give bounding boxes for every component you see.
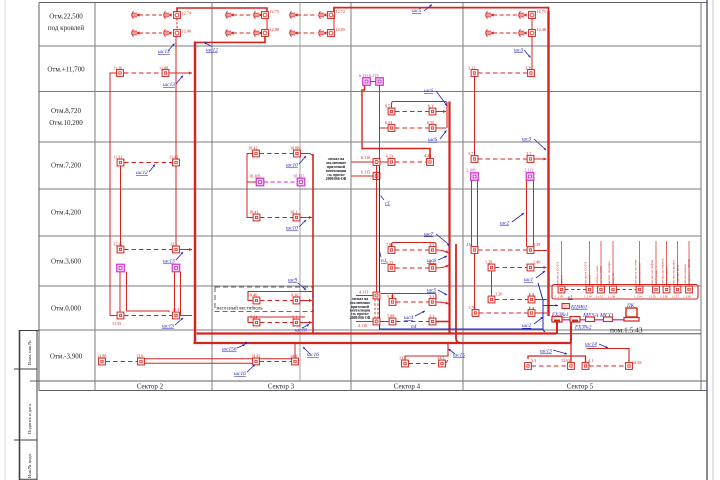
leader shs16 b [303, 347, 310, 354]
sounder D1a [486, 11, 494, 18]
module 4.115 [373, 292, 380, 299]
scan edge right [712, 0, 714, 480]
svg-text:шс6: шс6 [427, 258, 436, 264]
wire stub 5.88 left [380, 321, 389, 323]
svg-text:FX3№2: FX3№2 [574, 325, 592, 331]
detector 11.1 [173, 312, 180, 319]
leader shs12 mid [149, 165, 155, 173]
svg-text:3.1: 3.1 [429, 294, 434, 299]
detector 12.1 [173, 246, 180, 253]
svg-text:6.23: 6.23 [386, 154, 393, 159]
svg-text:шс7: шс7 [424, 232, 433, 238]
level line 11700 bottom [39, 91, 701, 93]
bracket sector4 basement [405, 343, 448, 360]
svg-text:6.1: 6.1 [428, 104, 433, 109]
bus node FX3-1 fill [554, 320, 560, 323]
svg-text:5.36: 5.36 [387, 294, 394, 299]
detector 3.71 [471, 156, 478, 163]
sector captions [137, 383, 594, 391]
magenta module 10.117 [297, 178, 305, 186]
leader shs13 [176, 76, 183, 85]
node 6.116 [373, 159, 380, 166]
detector 2.6 [471, 247, 478, 254]
black note block sector4 [350, 297, 371, 320]
wire dashed 1.70-1.1b [479, 312, 528, 314]
leader shs16 a [247, 365, 255, 373]
detector 6.51 [388, 108, 395, 115]
svg-text:Отм.10,200: Отм.10,200 [49, 119, 83, 127]
drop FX3 to bus lower [570, 323, 572, 344]
detector 2.39 [527, 247, 534, 254]
svg-text:10.1: 10.1 [290, 210, 297, 215]
wire dashed 13.1-14.1 [409, 363, 439, 365]
PC monitor icon [626, 308, 637, 317]
leader shs14 [599, 344, 608, 348]
output module 1.136b [663, 286, 670, 293]
thick bus upper [197, 332, 557, 334]
module 12.72 [328, 12, 335, 19]
magenta module 2.108 [471, 173, 479, 181]
svg-text:п1: п1 [568, 295, 573, 300]
wire pair 13.9-14.9 top [145, 358, 292, 360]
svg-text:шс15б: шс15б [222, 346, 237, 353]
svg-text:2.39: 2.39 [533, 242, 540, 247]
wire 6.34 left to riser [380, 127, 389, 129]
wire pair 13.9-14.9 bottom [145, 362, 253, 364]
svg-text:под кровлей: под кровлей [48, 24, 85, 32]
svg-text:11.1: 11.1 [172, 307, 179, 312]
svg-text:12.32: 12.32 [113, 242, 122, 247]
magenta module 6.111 [363, 78, 371, 86]
axis line mid sector 3 [299, 3, 301, 382]
svg-text:4.116: 4.116 [358, 323, 367, 328]
svg-text:1.134: 1.134 [634, 295, 642, 299]
detector 4.1 [582, 363, 589, 370]
sounder C1b [319, 11, 327, 18]
leader shs12 right [204, 43, 212, 47]
bus node FX3-2 fill [572, 320, 578, 323]
svg-text:шс1: шс1 [524, 277, 533, 283]
svg-text:1.139: 1.139 [555, 295, 563, 299]
wire dashed 4.115-4.116 [374, 299, 376, 318]
magenta module 6.115 [376, 78, 384, 86]
svg-text:4.1: 4.1 [588, 358, 593, 363]
wire module link D [531, 18, 533, 29]
svg-text:2.6: 2.6 [466, 242, 471, 247]
svg-text:п1: п1 [381, 258, 387, 264]
detector 13.9 [138, 358, 145, 365]
wire dashed 10.42-10.88 [260, 153, 294, 155]
svg-text:1.135: 1.135 [596, 295, 604, 299]
svg-text:Сектор 3: Сектор 3 [268, 383, 295, 391]
svg-text:шс14: шс14 [585, 342, 597, 348]
sounder A2a [132, 29, 140, 36]
svg-text:14.9: 14.9 [290, 354, 297, 359]
svg-text:шс12: шс12 [136, 170, 148, 176]
svg-text:3.71: 3.71 [468, 151, 475, 156]
detector 14.1 [439, 360, 446, 367]
sounder B2b [254, 29, 262, 36]
wire 12.48 down to 3.39 [531, 36, 533, 69]
svg-text:3.39: 3.39 [525, 66, 532, 71]
leader shs10 b [302, 325, 309, 329]
sounder B1b [254, 11, 262, 18]
detector 1.1b [528, 310, 535, 317]
wire 12.1 to riser [180, 249, 193, 251]
wire 248 to 9.24 [248, 322, 253, 324]
svg-text:насосный вестибюль: насосный вестибюль [217, 305, 264, 312]
svg-text:1.40: 1.40 [533, 260, 540, 265]
sounder D2b [519, 29, 527, 36]
wire dashed 9.46-9.36 [260, 300, 293, 302]
svg-text:Отм.7,200: Отм.7,200 [51, 162, 82, 170]
wire dashed om4-om5 [617, 289, 637, 291]
output module 1.134b [636, 286, 643, 293]
module 12.40 [174, 30, 181, 37]
level line 3600 bottom [39, 285, 701, 287]
svg-text:1.26: 1.26 [495, 292, 502, 297]
detector 1.29 [488, 264, 495, 271]
drawing border top [39, 2, 707, 4]
detector 14.58 [626, 363, 633, 370]
level line 0000 bottom [39, 329, 701, 331]
wire 3.1b to riser [436, 250, 449, 253]
svg-text:6.116: 6.116 [361, 155, 370, 160]
detector 14.42 [253, 358, 260, 365]
detector 10.41 [253, 214, 260, 221]
svg-text:4.34: 4.34 [424, 153, 432, 158]
underline room [556, 333, 701, 335]
wire 9.1 to riser [300, 322, 312, 324]
svg-text:шс4: шс4 [404, 315, 413, 321]
svg-text:3.1: 3.1 [526, 151, 531, 156]
wire link magenta pair [370, 81, 375, 83]
svg-text:13.9: 13.9 [136, 354, 143, 359]
wire dashed A1 [139, 14, 162, 16]
leader shs5 [424, 5, 432, 12]
svg-text:12.48: 12.48 [537, 27, 546, 32]
detector 3.1 s5 [527, 156, 534, 163]
leader shs6 s4 [438, 256, 447, 260]
thick elbow to 4.34 [362, 149, 430, 159]
svg-text:3.3: 3.3 [531, 358, 536, 363]
leader shs15 b [449, 349, 456, 354]
svg-text:2.108: 2.108 [466, 168, 475, 173]
wire dashed magenta pair s3 [264, 181, 297, 183]
wire 14.1 to bracket [446, 360, 449, 364]
detector 9.24 [253, 319, 260, 326]
wire 2.6 drop [474, 253, 476, 309]
leader shs1 [536, 271, 545, 278]
wire 1.40 to riser [534, 267, 547, 269]
level line 7200 bottom [39, 188, 701, 190]
svg-text:Сектор 5: Сектор 5 [567, 383, 594, 391]
wire 6.1 right [436, 111, 446, 113]
output module 1.138 [686, 286, 693, 293]
wire module link A [176, 18, 178, 29]
wire hook 14.58 [587, 349, 630, 364]
detector 9.46 [253, 297, 260, 304]
svg-text:9.46: 9.46 [250, 293, 257, 298]
loop riser return wire [456, 244, 461, 343]
svg-text:14.1: 14.1 [437, 356, 444, 361]
svg-text:шс12: шс12 [158, 49, 170, 55]
detector 1.70 [472, 310, 479, 317]
drop FX3 to bus upper [556, 323, 558, 335]
leader shs12 left [168, 44, 175, 52]
wire dashed B1 [233, 14, 252, 16]
svg-text:Отм.-3,900: Отм.-3,900 [50, 353, 83, 361]
wire B2 to bus [194, 36, 265, 42]
ticks 1.1 [530, 293, 533, 295]
leader shs9 [298, 283, 306, 290]
detector 11.16 [117, 70, 124, 77]
wire s2b drop left [174, 272, 176, 313]
wire 3.1c to riser [436, 302, 449, 304]
svg-text:зона 2: зона 2 [588, 275, 592, 284]
svg-text:11.42: 11.42 [169, 155, 178, 160]
svg-text:12.40: 12.40 [182, 29, 191, 34]
svg-text:3.12: 3.12 [468, 66, 475, 71]
wire 1.1b to riser [535, 312, 547, 314]
riser shs9/10 [312, 154, 314, 334]
detector 4.34 [427, 159, 434, 166]
wire dashed B2 [233, 32, 252, 34]
svg-text:с1: с1 [385, 201, 390, 207]
leader shs2 s5 [512, 213, 524, 222]
module 12.05 [328, 30, 335, 37]
wire 10.1 to riser [300, 217, 312, 219]
svg-text:шс13: шс13 [540, 349, 552, 355]
bus node 4 [604, 317, 613, 322]
ticks 1.1b [530, 307, 533, 309]
svg-text:БЦМ61: БЦМ61 [570, 305, 588, 311]
wire elbow 10.41 [247, 217, 253, 219]
node 6.115b [373, 173, 380, 180]
wire module link C [333, 15, 335, 33]
svg-text:10.88: 10.88 [290, 146, 299, 151]
output module 1.134 [586, 286, 593, 293]
leader shs4 [415, 311, 425, 316]
wire dashed 12.32-12.1 [124, 249, 172, 251]
svg-text:сигнал АУП: сигнал АУП [599, 266, 603, 284]
detector 6.34 [388, 125, 395, 132]
sounder B1a [226, 11, 234, 18]
wire 2.39 to riser [534, 250, 547, 252]
wire 10.105 left [247, 181, 256, 183]
wire left drop to 8720 [362, 85, 365, 149]
wire riser110 into 11.55 [110, 313, 117, 316]
leader shs6 lower [440, 131, 447, 140]
detector 5.36 [389, 299, 396, 306]
detector 10.1 [293, 214, 300, 221]
wire dashed C2 [297, 32, 317, 34]
module 4.116 [373, 318, 380, 325]
svg-text:зона 1: зона 1 [560, 275, 564, 284]
svg-text:Сектор 4: Сектор 4 [394, 383, 421, 391]
leader shs10 [299, 156, 306, 164]
wire 2.108 drop b [477, 180, 479, 246]
bus node FX3-2 [570, 317, 580, 323]
bus node 3 [586, 317, 595, 322]
wire 10.42 left loop [247, 154, 253, 218]
module 12.75 [262, 12, 269, 19]
MESA bus magenta [551, 319, 624, 321]
detector 12.32 [117, 246, 124, 253]
elevation captions [47, 13, 85, 361]
wire 3.1d to riser thick [436, 321, 449, 323]
wire dashed 5.88-3.1d [396, 321, 429, 323]
leader p1 [381, 196, 385, 201]
wire 11.31 drop [120, 166, 122, 247]
elevation column left edge [38, 3, 40, 391]
svg-text:6.34: 6.34 [385, 120, 393, 125]
svg-text:9.24: 9.24 [250, 315, 258, 320]
svg-text:12.75: 12.75 [270, 9, 279, 14]
detector 13.88 [99, 358, 106, 365]
svg-text:10.105: 10.105 [249, 174, 261, 179]
svg-text:1.136: 1.136 [660, 295, 668, 299]
scan edge left [4, 0, 6, 480]
wire 3.1 to riser [534, 158, 547, 160]
svg-text:12.05: 12.05 [336, 27, 345, 32]
svg-text:шс3: шс3 [514, 48, 523, 54]
detector 11.88 [162, 70, 169, 77]
wire 248 to 9.46 [248, 297, 253, 301]
svg-text:1.136: 1.136 [608, 295, 616, 299]
svg-text:Инв.№ подл.: Инв.№ подл. [27, 453, 32, 478]
wire 6.1b to riser [436, 265, 449, 268]
detector 1.40 [527, 264, 534, 271]
detector 11.55 [117, 312, 124, 319]
magenta module 2.122 [526, 173, 534, 181]
svg-text:вентиляции: вентиляции [665, 267, 669, 284]
level line -3900 bottom [30, 380, 707, 382]
wire 2.122 drops [526, 180, 528, 246]
wire bracket 9.24 [248, 317, 305, 323]
svg-text:шс10: шс10 [286, 163, 298, 169]
wire bracket 9.46 [248, 292, 313, 298]
svg-text:1.134: 1.134 [584, 295, 592, 299]
svg-text:шс5: шс5 [412, 8, 421, 14]
wire dashed 11.31-11.42 [124, 162, 172, 164]
magenta module s2a [117, 264, 125, 272]
svg-text:Подпись и дата: Подпись и дата [27, 404, 32, 434]
svg-text:пом.1.5.43: пом.1.5.43 [610, 326, 643, 335]
svg-text:п4: п4 [411, 324, 417, 330]
svg-text:6.51: 6.51 [385, 104, 392, 109]
wire 3.12 drop [474, 76, 476, 156]
wire dashed 10.41-10.1 [260, 217, 293, 219]
svg-text:3.1: 3.1 [429, 242, 434, 247]
leader p1 s4 [380, 252, 381, 257]
output module 1.135 [598, 286, 605, 293]
wire dashed 6.23-4.34 [395, 161, 427, 163]
sounder A1a [132, 11, 140, 18]
wire riser from 12.40 down [175, 36, 177, 159]
output module 1.139 [558, 286, 565, 293]
sounder B2a [226, 29, 234, 36]
level line 22500 bottom [39, 45, 701, 47]
wire bracket shs6 top [392, 102, 448, 129]
leader shs3 mid [534, 139, 546, 150]
detector 1.26 [488, 296, 495, 303]
svg-text:Сектор 2: Сектор 2 [137, 383, 164, 391]
svg-text:подпора возд.: подпора возд. [676, 264, 680, 284]
module 12.48 [529, 30, 536, 37]
svg-text:шс9: шс9 [288, 278, 297, 284]
wire drop 571 to T [528, 343, 571, 359]
leader shs5 s4 [438, 290, 447, 295]
wire 9.36 to riser [300, 300, 312, 302]
wire stub 6.116 [352, 161, 374, 163]
main riser sector5 [547, 11, 549, 316]
svg-text:воздуха: воздуха [611, 272, 615, 284]
svg-text:шс13: шс13 [163, 82, 175, 88]
svg-text:14.58: 14.58 [632, 360, 641, 365]
svg-text:12.74: 12.74 [182, 11, 192, 16]
PC base [624, 318, 639, 322]
detector 11.31 [117, 159, 124, 166]
svg-text:шс6: шс6 [428, 137, 437, 143]
svg-text:12.71: 12.71 [537, 9, 546, 14]
sounder A1b [164, 11, 172, 18]
svg-text:13.62: 13.62 [561, 358, 570, 363]
junction dot bus [245, 342, 247, 344]
wire dashed 3.71-3.1 [478, 158, 527, 160]
wire 11.88 to riser [169, 72, 192, 74]
sounder D2a [486, 29, 494, 36]
detector 3.1d [429, 318, 436, 325]
svg-text:шс10: шс10 [286, 226, 298, 232]
axis line sector 3-4 [350, 3, 352, 391]
wire node column [376, 165, 378, 295]
wire 11.16 left riser [110, 73, 117, 313]
detector 3.3 [525, 363, 532, 370]
svg-text:шс13: шс13 [162, 324, 174, 330]
wire loop top A-B [177, 8, 267, 12]
detector 9.1 [293, 319, 300, 326]
detector 11.42 [173, 159, 180, 166]
svg-text:2.122: 2.122 [524, 168, 533, 173]
wire dashed 4.1-14.58 [589, 365, 626, 367]
wire 1.1 to riser [535, 299, 547, 301]
output module 1.136 [610, 286, 617, 293]
detector 3.39 [528, 70, 535, 77]
svg-text:10.41: 10.41 [249, 210, 258, 215]
wire stub 4.115 [356, 295, 373, 297]
svg-text:12.72: 12.72 [336, 9, 345, 14]
bracket shs7 [392, 243, 437, 247]
svg-text:9.36: 9.36 [291, 293, 298, 298]
sounder C2a [290, 29, 298, 36]
wire dashed A2 [139, 32, 162, 34]
svg-text:дымоудаления: дымоудаления [638, 263, 642, 284]
bracket shs5 [381, 294, 436, 299]
detector 10.42 [253, 150, 260, 157]
svg-text:1.138: 1.138 [683, 295, 691, 299]
title block strip left [14, 330, 39, 480]
svg-text:Взам. инв.№: Взам. инв.№ [27, 340, 32, 365]
svg-text:шс3: шс3 [522, 137, 531, 143]
svg-text:4.115: 4.115 [359, 290, 368, 295]
detector 13.1 [402, 360, 409, 367]
svg-text:в диспетч. СКУД: в диспетч. СКУД [687, 259, 691, 284]
magenta module s2b [172, 264, 180, 272]
loop outline around output modules [552, 285, 698, 300]
svg-text:Отм.0,000: Отм.0,000 [51, 305, 82, 313]
wire 1.29 drop [491, 271, 493, 296]
